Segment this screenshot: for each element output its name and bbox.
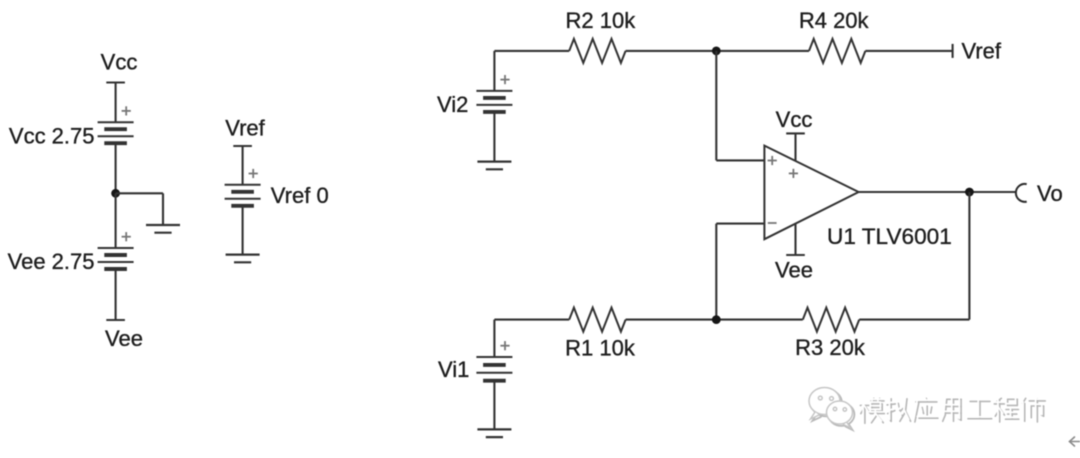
svg-text:Vi1: Vi1 <box>438 357 469 382</box>
svg-text:Vee: Vee <box>775 258 813 283</box>
svg-text:Vref: Vref <box>962 38 1002 63</box>
svg-text:Vcc 2.75: Vcc 2.75 <box>9 123 95 148</box>
svg-text:Vee: Vee <box>105 326 143 351</box>
svg-text:Vee 2.75: Vee 2.75 <box>8 249 95 274</box>
svg-text:Vref: Vref <box>225 115 265 140</box>
svg-text:R2 10k: R2 10k <box>566 8 637 33</box>
svg-text:R1 10k: R1 10k <box>565 336 636 361</box>
svg-text:Vcc: Vcc <box>776 107 813 132</box>
svg-text:Vref 0: Vref 0 <box>271 183 329 208</box>
svg-text:Vcc: Vcc <box>101 50 138 75</box>
svg-text:R4 20k: R4 20k <box>799 8 870 33</box>
svg-text:U1 TLV6001: U1 TLV6001 <box>827 224 952 249</box>
svg-text:Vo: Vo <box>1037 181 1063 206</box>
svg-text:R3 20k: R3 20k <box>795 335 866 360</box>
svg-text:Vi2: Vi2 <box>437 92 468 117</box>
